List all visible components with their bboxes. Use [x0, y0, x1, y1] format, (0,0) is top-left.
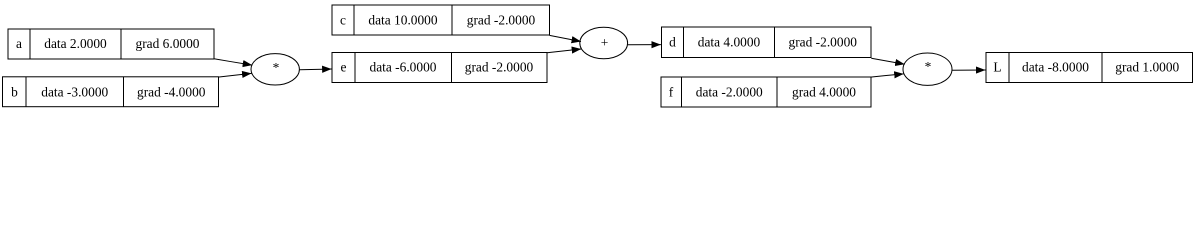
svg-text:f: f	[669, 84, 674, 99]
node c	[332, 5, 550, 35]
svg-text:d: d	[669, 34, 676, 49]
wire d to U3	[871, 58, 904, 64]
svg-text:+: +	[601, 35, 609, 50]
svg-text:grad -2.0000: grad -2.0000	[789, 34, 858, 49]
node L	[986, 53, 1193, 83]
wire U2 to d	[628, 44, 661, 46]
svg-text:grad 1.0000: grad 1.0000	[1115, 60, 1179, 75]
node b	[3, 77, 219, 107]
svg-text:L: L	[993, 60, 1001, 75]
svg-text:data -6.0000: data -6.0000	[370, 60, 437, 75]
op-mul ellipse U1	[251, 54, 299, 85]
wire U3 to L	[952, 69, 985, 71]
op-mul ellipse U3	[903, 53, 952, 85]
svg-text:a: a	[16, 36, 22, 51]
svg-text:data -2.0000: data -2.0000	[696, 84, 763, 99]
svg-text:grad 4.0000: grad 4.0000	[792, 84, 856, 99]
node d	[662, 27, 872, 58]
svg-text:*: *	[925, 59, 932, 74]
svg-text:data -3.0000: data -3.0000	[41, 84, 108, 99]
svg-text:b: b	[11, 84, 18, 99]
node e	[332, 53, 547, 83]
svg-text:grad -2.0000: grad -2.0000	[467, 12, 536, 27]
wire U1 to e	[299, 68, 331, 71]
svg-text:*: *	[273, 60, 280, 75]
svg-text:data 10.0000: data 10.0000	[368, 12, 437, 27]
svg-text:c: c	[340, 12, 346, 27]
node a	[8, 29, 214, 59]
wire f to U3	[871, 74, 904, 77]
op-add ellipse U2	[580, 27, 628, 59]
svg-text:grad 6.0000: grad 6.0000	[136, 36, 200, 51]
wire e to U2	[547, 49, 581, 53]
wire c to U2	[550, 35, 582, 41]
svg-text:data 4.0000: data 4.0000	[698, 34, 761, 49]
svg-text:e: e	[341, 60, 347, 75]
svg-text:grad -2.0000: grad -2.0000	[465, 60, 534, 75]
wire a to U1	[214, 59, 252, 65]
svg-text:data 2.0000: data 2.0000	[44, 36, 107, 51]
svg-text:data -8.0000: data -8.0000	[1022, 60, 1089, 75]
svg-text:grad -4.0000: grad -4.0000	[137, 84, 206, 99]
node f	[661, 77, 871, 107]
wire b to U1	[218, 73, 252, 77]
